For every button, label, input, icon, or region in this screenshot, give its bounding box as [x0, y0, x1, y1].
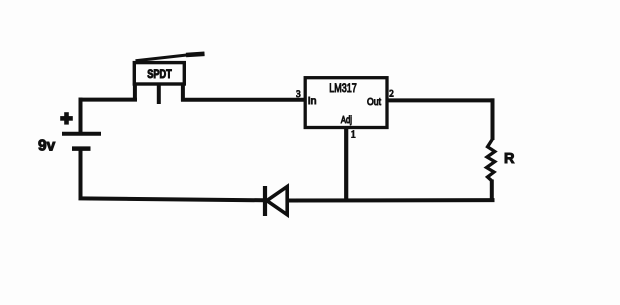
svg-text:2: 2: [389, 89, 394, 99]
switch S1 lever arm: [136, 54, 205, 61]
battery B1 positive plate: [62, 132, 101, 136]
wire battery+ vertical drop: [79, 98, 83, 133]
battery label 9v: [38, 137, 56, 154]
diode D1 cathode bar: [263, 186, 267, 216]
U1 pin label Out: [367, 96, 381, 108]
svg-text:LM317: LM317: [329, 81, 357, 95]
battery B1 negative plate: [72, 146, 91, 151]
U1 pin label In: [308, 95, 317, 107]
U1 pin label Adj: [341, 114, 352, 126]
resistor R zigzag: [487, 139, 495, 181]
svg-text:9v: 9v: [38, 137, 56, 154]
wire bottom rail right segment (diode to resistor): [286, 198, 495, 202]
svg-text:3: 3: [296, 89, 301, 99]
switch S1 right leg: [181, 83, 185, 101]
svg-text:1: 1: [351, 130, 356, 141]
wire right rail vertical to resistor: [491, 98, 495, 140]
wire LM317 Out pin 2 to right rail: [387, 98, 495, 102]
switch S1 SPDT body box: [134, 63, 184, 84]
U1 pin number 1: [351, 130, 356, 141]
wire resistor bottom to bottom rail: [490, 180, 494, 201]
svg-text:R: R: [504, 151, 515, 167]
svg-text:In: In: [308, 95, 317, 107]
U1 label LM317: [329, 81, 357, 95]
wire LM317 Adj pin 1 to bottom rail junction: [344, 128, 348, 202]
op-amp regulator U1 LM317 body: [305, 78, 387, 128]
wire battery- vertical to bottom rail: [79, 150, 83, 200]
wire switch to LM317 In pin 3: [181, 98, 306, 102]
resistor label R: [504, 151, 515, 167]
U1 pin number 3: [296, 89, 301, 99]
switch S1 label SPDT: [147, 69, 172, 81]
switch S1 middle pole stub: [157, 83, 161, 104]
U1 pin number 2: [389, 89, 394, 99]
wire battery+ to switch left leg: [79, 98, 138, 102]
wire bottom rail left segment (battery to diode): [79, 198, 265, 200]
switch S1 left leg: [133, 83, 137, 101]
diode D1 triangle: [267, 187, 287, 215]
svg-text:Out: Out: [367, 96, 381, 108]
svg-text:SPDT: SPDT: [147, 69, 172, 81]
battery B1 plus sign: [60, 112, 73, 124]
svg-text:Adj: Adj: [341, 114, 352, 126]
